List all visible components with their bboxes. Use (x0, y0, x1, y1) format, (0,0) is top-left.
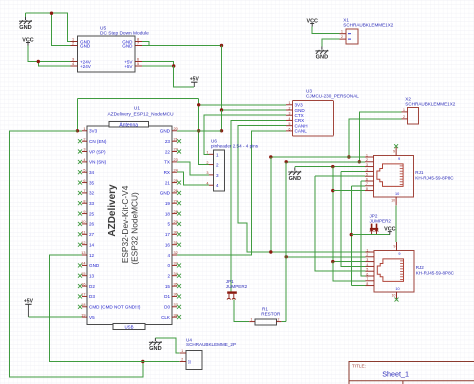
svg-text:35: 35 (89, 180, 95, 185)
svg-text:RESTOR: RESTOR (261, 312, 281, 317)
wire JP1 to R1 (234, 300, 249, 322)
junction R1 riser (285, 255, 288, 258)
wire RJ1 pin10 to RJ2 pin9 (395, 205, 397, 242)
junction +5V (172, 64, 175, 67)
screw terminal X1 (SCHRAUBKLEMME1X2) (340, 17, 394, 43)
ground (bottom, near U4) (149, 338, 162, 352)
wire U3 CRX down to jumper JP1 (231, 120, 286, 291)
svg-text:23: 23 (165, 139, 171, 144)
svg-text:1: 1 (289, 101, 291, 105)
junction GND rail (50, 12, 53, 15)
svg-text:GND: GND (149, 346, 161, 352)
screw terminal U4 (SCHRAUBKLEMME_2P) (180, 337, 236, 369)
wire RJ1.5 to RJ2.5 (315, 176, 366, 271)
svg-text:2: 2 (206, 161, 208, 165)
svg-text:+5V: +5V (190, 76, 200, 82)
svg-text:6: 6 (366, 272, 368, 276)
wire U3 CANH staircase to RJ2 pin1 (238, 126, 370, 252)
no-connect X on U1 pin 9 (78, 212, 82, 216)
svg-text:2: 2 (366, 253, 368, 257)
wire GND chain down to RJ2 pin3 (333, 167, 366, 262)
no-connect X on U1 pin 28 (177, 212, 181, 216)
wire U3 CTX to U6 pin1 (204, 115, 286, 154)
junction X2 pin1 / RJ1 pin2 (358, 160, 361, 163)
ground (top-right) (315, 47, 328, 61)
svg-text:GND: GND (160, 129, 171, 134)
wire +5V to flag (174, 66, 194, 87)
svg-text:CMD (CMD NOT GND!!!): CMD (CMD NOT GND!!!) (89, 305, 141, 310)
no-connect X on U1 pin 14 (78, 263, 82, 267)
svg-text:GND: GND (89, 263, 100, 268)
svg-text:RJ2: RJ2 (416, 265, 425, 270)
svg-text:5: 5 (167, 222, 170, 227)
wire VCC vertical (RJ1.7 down past JP2 rail) (350, 186, 352, 286)
svg-text:13: 13 (89, 274, 95, 279)
svg-text:CRX: CRX (295, 118, 305, 123)
svg-text:1: 1 (206, 151, 208, 155)
svg-text:19: 19 (165, 201, 171, 206)
svg-text:GND: GND (160, 191, 171, 196)
no-connect X on U1 pin 6 (78, 181, 82, 185)
svg-text:JUMPER2: JUMPER2 (370, 218, 392, 223)
svg-text:2: 2 (83, 137, 85, 141)
wire GND stem RJ1 (294, 167, 296, 168)
wire X2 pin2 to RJ1 row1 (349, 119, 402, 157)
wire 3V3 down to U1 pin1 (77, 98, 82, 131)
svg-text:2: 2 (289, 106, 291, 110)
no-connect X on U1 pin 31 (177, 243, 181, 247)
svg-text:3: 3 (366, 163, 368, 167)
svg-text:4: 4 (216, 183, 219, 188)
svg-text:1: 1 (216, 152, 219, 157)
junction 3V3 to U3 (197, 103, 200, 106)
svg-text:10: 10 (391, 199, 395, 203)
VCC flag (left) (22, 37, 33, 45)
no-connect X on U1 pin 16 (78, 284, 82, 288)
wire U1 TX to U6 pin3 (177, 162, 209, 175)
junction GND rail corner (220, 44, 223, 47)
no-connect X on U1 pin 36 (177, 294, 181, 298)
svg-text:AZDelivery_ESP12_NodeMCU: AZDelivery_ESP12_NodeMCU (107, 112, 174, 118)
wire GND chain down to RJ2 pin7 (333, 262, 366, 281)
svg-text:26: 26 (89, 222, 95, 227)
svg-text:GND: GND (289, 176, 301, 182)
svg-text:1: 1 (83, 127, 85, 131)
wire +5V to U1 V5 pin19 (28, 316, 82, 318)
wire ground to U4 pin1 (155, 338, 179, 353)
svg-text:12: 12 (188, 360, 192, 364)
svg-text:2: 2 (366, 158, 368, 162)
svg-text:CLK: CLK (161, 315, 171, 320)
wire vertical RJ1.1 to CANH run (270, 157, 272, 252)
svg-text:CJMCU-230_PERSONAL: CJMCU-230_PERSONAL (306, 93, 359, 98)
junction on CANH run (269, 250, 272, 253)
svg-text:CN (EN): CN (EN) (89, 139, 107, 144)
svg-text:3: 3 (83, 148, 85, 152)
svg-text:33: 33 (89, 201, 95, 206)
svg-text:7: 7 (83, 189, 85, 193)
no-connect X on RJ1 pin9 (394, 144, 398, 148)
svg-text:12: 12 (89, 253, 95, 258)
svg-text:2: 2 (278, 317, 280, 321)
svg-text:KH-RJ45-59-8P8C: KH-RJ45-59-8P8C (416, 271, 455, 276)
CAN transceiver U3 (CJMCU-230_PERSONAL) (286, 89, 359, 137)
svg-text:18: 18 (165, 211, 171, 216)
svg-text:VN (SN): VN (SN) (89, 160, 107, 165)
wire U3 GND row (222, 109, 287, 111)
junction RJ1 pin2 row (285, 160, 288, 163)
svg-text:2: 2 (216, 163, 219, 168)
svg-text:USB: USB (124, 325, 133, 330)
RJ45 jack RJ1 (KH-RJ45-59-8P8C) (365, 147, 454, 205)
svg-text:4: 4 (206, 181, 208, 185)
svg-text:5: 5 (83, 168, 85, 172)
svg-text:15: 15 (165, 284, 171, 289)
no-connect X on U1 pin 25 (177, 181, 181, 185)
svg-text:4: 4 (366, 263, 368, 267)
svg-text:GND: GND (122, 43, 133, 48)
wire GND rail down (221, 46, 223, 111)
svg-text:9: 9 (394, 245, 396, 249)
no-connect X on U1 pin 37 (177, 305, 181, 309)
svg-text:2: 2 (181, 357, 183, 361)
no-connect X on U1 pin 15 (78, 274, 82, 278)
svg-text:3: 3 (289, 112, 291, 116)
svg-text:4: 4 (366, 168, 368, 172)
no-connect X on U1 pin 29 (177, 222, 181, 226)
no-connect X on U1 pin 18 (78, 305, 82, 309)
wire branch to U5 +24V pin4 (38, 62, 70, 67)
svg-text:3: 3 (216, 173, 219, 178)
wire R1 riser down (285, 162, 287, 322)
pin header U6 (pinheader 2.54 - 4 pins) (206, 139, 258, 191)
svg-text:21: 21 (165, 180, 171, 185)
VCC flag (near JP2) (384, 226, 395, 234)
svg-text:GND: GND (19, 25, 31, 31)
svg-text:3: 3 (206, 171, 208, 175)
svg-text:9: 9 (393, 150, 395, 154)
no-connect X on U1 pin 4 (78, 160, 82, 164)
svg-text:+24V: +24V (80, 64, 92, 69)
no-connect X on U1 pin 8 (78, 201, 82, 205)
title block (349, 362, 474, 384)
no-connect X on RJ2 pin10 (395, 298, 399, 302)
svg-text:1: 1 (366, 153, 368, 157)
wire loop around U1 to U4 pin2 (10, 131, 143, 377)
junction at U1 pin20 wire end (220, 129, 223, 132)
svg-text:32: 32 (89, 191, 95, 196)
svg-text:6: 6 (366, 177, 368, 181)
wire RJ1 pin7 row (351, 185, 365, 187)
svg-text:3: 3 (366, 258, 368, 262)
wire GND down to U1 pin20 rail (221, 110, 223, 131)
svg-text:SCHRAUBKLEMME1X2: SCHRAUBKLEMME1X2 (343, 22, 393, 27)
wire RJ1.4 to RJ2.4 (341, 171, 366, 266)
svg-text:4: 4 (167, 253, 170, 258)
junction loop / U1 pin13 wire (141, 360, 144, 363)
svg-text:2: 2 (72, 42, 74, 46)
svg-text:KH-RJ45-59-8P8C: KH-RJ45-59-8P8C (415, 176, 454, 181)
svg-text:10: 10 (395, 287, 399, 291)
wire VCC to X1 pin1 (312, 27, 339, 34)
junction RJ2 pin3 (331, 260, 334, 263)
no-connect X on U1 pin 35 (177, 284, 181, 288)
wire U5 GND out pin merge (142, 42, 149, 46)
wire GND stem (25, 13, 27, 17)
junction GND chain at RJ1 pin8 row (331, 189, 334, 192)
svg-text:1: 1 (251, 317, 253, 321)
wire RJ1 pin8 row from GND chain (333, 190, 365, 192)
wire 3V3 top run (77, 97, 198, 99)
svg-text:RX: RX (164, 170, 170, 175)
junction X2 pin2 / RJ1 pin1 (347, 155, 350, 158)
wire RJ2 pin2 row (286, 256, 365, 258)
no-connect X on U1 pin 3 (78, 150, 82, 154)
svg-text:3V3: 3V3 (89, 129, 98, 134)
svg-text:CANL: CANL (295, 129, 308, 134)
svg-text:27: 27 (89, 232, 95, 237)
svg-text:5: 5 (289, 122, 291, 126)
svg-text:5: 5 (366, 173, 368, 177)
wire 3V3 vertical to U6 pin2 (199, 98, 209, 164)
svg-text:10: 10 (392, 294, 396, 298)
svg-text:8: 8 (366, 187, 368, 191)
svg-text:VCC: VCC (22, 37, 33, 43)
wire GND rail branch to U5 pin2 (52, 13, 71, 45)
svg-text:9: 9 (398, 252, 400, 256)
junction U3 GND (220, 108, 223, 111)
no-connect X on U1 pin 34 (177, 274, 181, 278)
wire GND rail to U5 pin1 (26, 13, 71, 41)
no-connect X on U1 pin 7 (78, 191, 82, 195)
junction 3V3 at U1 pin20 wire (197, 129, 200, 132)
microcontroller U1 (AZDelivery ESP32 NodeMCU) (81, 106, 177, 330)
wire U5 GND rail right (142, 45, 222, 47)
svg-text:VP (SP): VP (SP) (89, 149, 106, 154)
ground (top-left) (19, 17, 32, 31)
no-connect X on U1 pin 21 (177, 139, 181, 143)
VCC flag (top-right) (307, 18, 318, 26)
wire VCC to U5 +24V pin3 (28, 46, 71, 62)
svg-text:10: 10 (395, 192, 399, 196)
svg-text:14: 14 (89, 243, 95, 248)
svg-text:AZDelivery: AZDelivery (107, 184, 118, 237)
svg-text:V5: V5 (89, 315, 95, 320)
wire U1 pin20 GND (177, 130, 222, 132)
no-connect X on U1 pin 38 (177, 315, 181, 319)
jumper JP1 (JUMPER2) (226, 279, 248, 299)
no-connect X on U1 pin 33 (177, 263, 181, 267)
svg-text:(ESP32 NodeMCU): (ESP32 NodeMCU) (129, 192, 139, 265)
wire U3 CANL down to U1 pin32 (177, 131, 286, 255)
no-connect X on U1 pin 17 (78, 294, 82, 298)
wire X1 pin2 to ground (322, 39, 340, 46)
no-connect X on U1 pin 27 (177, 201, 181, 205)
svg-text:5: 5 (366, 268, 368, 272)
voltage regulator U5 (DC Step Down Module) (71, 26, 150, 73)
svg-text:17: 17 (165, 232, 171, 237)
svg-text:2: 2 (341, 35, 343, 39)
RJ45 jack RJ2 (KH-RJ45-59-8P8C) (365, 242, 454, 300)
svg-text:4: 4 (83, 158, 85, 162)
no-connect X on U1 pin 26 (177, 191, 181, 195)
svg-text:TX: TX (164, 160, 170, 165)
svg-text:ESP32-Dev-Kit-C-V4: ESP32-Dev-Kit-C-V4 (120, 185, 130, 263)
junction GND chain (331, 165, 334, 168)
svg-text:TITLE:: TITLE: (352, 363, 366, 368)
+5V flag (upper) (190, 76, 200, 87)
svg-text:2: 2 (167, 274, 170, 279)
svg-text:+5V: +5V (24, 299, 34, 305)
svg-text:7: 7 (366, 277, 368, 281)
wire U3 3V3 row (199, 104, 286, 106)
svg-text:4: 4 (72, 62, 74, 66)
wire U5 +5V pin8 (142, 65, 174, 67)
no-connect X on U1 pin 2 (78, 139, 82, 143)
resistor R1 (RESTOR) (249, 307, 281, 325)
wire U5 +5V pin7 (142, 62, 174, 67)
svg-text:U1: U1 (134, 106, 140, 112)
svg-text:D2: D2 (89, 284, 95, 289)
wire RJ1.6 to RJ2.6 (361, 181, 365, 276)
wire RJ1 pin6 row (361, 180, 365, 182)
svg-text:34: 34 (89, 170, 95, 175)
svg-text:1: 1 (403, 108, 405, 112)
svg-text:16: 16 (165, 243, 171, 248)
wire RJ2 pin8 row (351, 285, 365, 287)
svg-text:22: 22 (165, 149, 171, 154)
svg-text:1: 1 (366, 248, 368, 252)
no-connect X on U1 pin 10 (78, 222, 82, 226)
svg-text:GND: GND (80, 43, 91, 48)
+5V flag (lower-left) (24, 299, 34, 317)
junction U1 pin1 (76, 129, 79, 132)
svg-text:DC Step Down Module: DC Step Down Module (100, 31, 149, 37)
svg-text:D0: D0 (164, 305, 170, 310)
wire VCC rail at JP2 (351, 234, 390, 236)
svg-text:8: 8 (366, 282, 368, 286)
svg-text:6: 6 (137, 58, 139, 62)
junction RJ1 pin1 row (269, 155, 272, 158)
svg-text:8: 8 (83, 199, 85, 203)
svg-text:RJ1: RJ1 (415, 170, 424, 175)
svg-text:Sheet_1: Sheet_1 (382, 369, 409, 378)
svg-text:25: 25 (89, 211, 95, 216)
svg-text:1: 1 (181, 349, 183, 353)
svg-text:SCHRAUBKLEMME1X2: SCHRAUBKLEMME1X2 (405, 102, 455, 107)
svg-text:D1: D1 (164, 294, 170, 299)
svg-text:D3: D3 (89, 294, 95, 299)
svg-text:7: 7 (137, 42, 139, 46)
wire R1 to riser (281, 321, 286, 323)
svg-text:Antenna: Antenna (119, 122, 138, 128)
wire RJ1 pin1 row (271, 156, 365, 158)
svg-text:SCHRAUBKLEMME_2P: SCHRAUBKLEMME_2P (186, 342, 236, 347)
svg-text:pinheader 2.54 - 4 pins: pinheader 2.54 - 4 pins (211, 144, 259, 149)
ground (middle, near RJ1) (288, 168, 301, 182)
svg-text:0: 0 (167, 263, 170, 268)
svg-text:JUMPER2: JUMPER2 (226, 284, 248, 289)
wire U1 pin13 to U4 pin2 (49, 255, 179, 362)
wire U1 RX to U6 pin4 (177, 172, 209, 185)
svg-text:6: 6 (83, 179, 85, 183)
svg-text:VCC: VCC (384, 226, 395, 232)
wire RJ1 pin5 row (315, 175, 365, 177)
svg-text:6: 6 (289, 127, 291, 131)
svg-text:9: 9 (83, 210, 85, 214)
wire RJ1 pin4 row (341, 170, 365, 172)
svg-text:+5V: +5V (124, 64, 133, 69)
svg-text:GND: GND (316, 55, 328, 61)
junction +24V (37, 60, 40, 63)
svg-text:1: 1 (341, 30, 343, 34)
svg-text:4: 4 (289, 117, 291, 121)
no-connect X on U1 pin 11 (78, 232, 82, 236)
no-connect X on U1 pin 12 (78, 243, 82, 247)
no-connect X on U1 pin 5 (78, 170, 82, 174)
svg-text:VCC: VCC (307, 18, 318, 24)
svg-text:9: 9 (398, 157, 400, 161)
screw terminal X2 (SCHRAUBKLEMME1X2) (402, 97, 456, 125)
svg-text:2: 2 (403, 115, 405, 119)
svg-text:5: 5 (137, 62, 139, 66)
no-connect X on U1 pin 22 (177, 150, 181, 154)
jumper JP2 (JUMPER2) (370, 214, 392, 235)
wire RJ1 pin3 row (GND) (295, 166, 365, 168)
svg-text:3: 3 (72, 58, 74, 62)
no-connect X on U1 pin 30 (177, 232, 181, 236)
wire RJ1 pin2 row (286, 161, 365, 163)
junction VCC rail / riser (350, 233, 353, 236)
wire X2 pin1 to RJ1 row2 (359, 112, 401, 162)
svg-text:7: 7 (366, 182, 368, 186)
